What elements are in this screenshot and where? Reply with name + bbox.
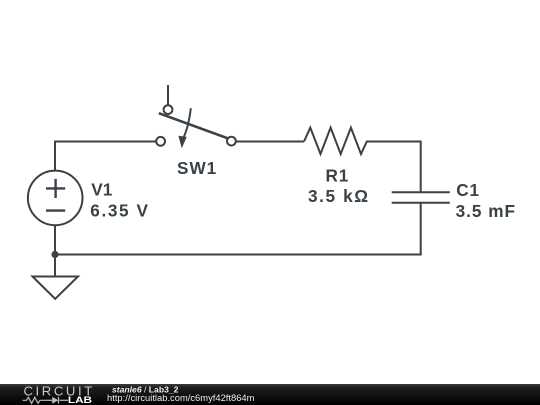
svg-text:LAB: LAB bbox=[68, 396, 93, 405]
node junction dot bbox=[51, 251, 58, 258]
capacitor C1 bbox=[392, 192, 450, 203]
voltage source V1 bbox=[28, 171, 83, 226]
wire top-left vertical to V1 bbox=[54, 141, 56, 171]
switch left terminal bbox=[156, 137, 165, 146]
wire top-left horizontal bbox=[55, 141, 156, 143]
resistor R1 bbox=[304, 128, 370, 154]
svg-text:R1: R1 bbox=[326, 165, 350, 185]
wire switch to resistor bbox=[236, 141, 304, 143]
switch blade bbox=[159, 113, 228, 138]
switch SW1 bbox=[156, 85, 236, 148]
wire capacitor to bottom corner bbox=[420, 203, 422, 255]
switch top terminal bbox=[164, 105, 173, 114]
logo resistor-diode symbol bbox=[23, 397, 68, 404]
svg-text:http://circuitlab.com/c6myf42f: http://circuitlab.com/c6myf42ft864m bbox=[107, 392, 255, 403]
footer bar bbox=[0, 384, 540, 405]
switch right terminal bbox=[227, 137, 236, 146]
svg-text:3.5 mF: 3.5 mF bbox=[456, 201, 516, 221]
svg-text:V1: V1 bbox=[91, 179, 112, 199]
svg-text:C1: C1 bbox=[456, 180, 480, 200]
wire resistor to top-right corner bbox=[370, 141, 421, 143]
switch throw arrow bbox=[184, 108, 191, 137]
wire switch top stub bbox=[167, 85, 169, 105]
wire bottom horizontal bbox=[55, 254, 422, 256]
wire V1 bottom to junction bbox=[54, 225, 56, 255]
wire junction to ground bbox=[54, 255, 56, 277]
wire right vertical to capacitor bbox=[420, 141, 422, 193]
svg-text:6.35 V: 6.35 V bbox=[90, 200, 149, 220]
svg-text:SW1: SW1 bbox=[177, 158, 217, 178]
ground bbox=[33, 277, 79, 299]
svg-text:3.5 kΩ: 3.5 kΩ bbox=[308, 186, 370, 206]
